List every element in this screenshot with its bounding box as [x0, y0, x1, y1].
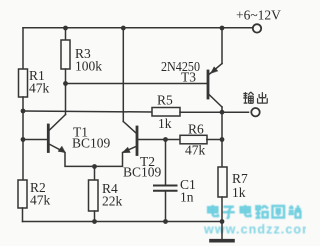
label R1 value	[29, 8, 281, 209]
node rail-ground	[220, 219, 225, 224]
wire R3 bottom down to T1 collector	[65, 69, 67, 115]
svg-text:R5: R5	[157, 93, 173, 108]
ground	[211, 222, 233, 241]
svg-text:R7: R7	[232, 171, 248, 186]
watermark 电子电路图网 line 1	[208, 205, 301, 218]
wire R5 right to output node	[180, 111, 222, 113]
node R6/R7	[220, 137, 225, 142]
svg-text:R6: R6	[188, 122, 204, 137]
resistor R2	[18, 180, 27, 208]
node R4-rail	[92, 219, 97, 224]
resistor R5	[152, 108, 180, 117]
wire top supply rail	[23, 27, 253, 29]
transistor T2	[95, 122, 166, 167]
wire left vertical from rail to R1	[22, 28, 24, 69]
node R1/R2 divider T1 base tap	[21, 137, 26, 142]
capacitor C1	[154, 186, 177, 191]
wire bias line from divider node to R5 left	[23, 111, 152, 112]
resistor R7	[218, 167, 227, 197]
wire T1/T2 common emitter to R4	[94, 167, 96, 181]
svg-text:47k: 47k	[30, 193, 51, 208]
transistor T3	[208, 64, 222, 108]
node T2 base/R6/C1	[163, 137, 168, 142]
svg-text:T3: T3	[181, 70, 196, 85]
wire R6 left stub	[166, 139, 181, 141]
svg-text:1k: 1k	[232, 185, 246, 200]
wire node A to T3 base	[66, 83, 207, 85]
wire T3 emitter to supply rail	[221, 28, 223, 64]
node rail-T2 collector	[121, 26, 126, 31]
svg-text:100k: 100k	[75, 59, 102, 74]
resistor R3	[61, 40, 70, 69]
node output	[220, 110, 225, 115]
svg-text:1k: 1k	[158, 116, 172, 131]
svg-text:47k: 47k	[29, 81, 50, 96]
wire T3 collector to output node	[221, 107, 223, 112]
resistor R4	[89, 180, 99, 211]
resistor R6	[180, 135, 207, 144]
wire R2 bottom to bottom-left corner	[22, 208, 24, 222]
svg-text:47k: 47k	[185, 143, 206, 158]
node rail-R3	[63, 26, 68, 31]
label output 输出 (drawn glyphs)	[243, 92, 267, 103]
node A R3-T3 base	[63, 81, 68, 86]
wire T2 collector to supply rail	[122, 28, 124, 122]
node rail-T3 emitter	[220, 26, 225, 31]
wire T2 base/R6 node down to C1	[165, 140, 167, 186]
wire R6 right stub	[207, 139, 222, 141]
terminal +6~12V circle	[253, 24, 261, 32]
wire R7 bottom to rail	[221, 197, 223, 222]
svg-text:BC109: BC109	[72, 136, 111, 151]
wire T1 base line	[23, 139, 48, 141]
node R1/R2 divider upper tap	[21, 109, 26, 114]
wire bottom ground rail	[23, 221, 223, 223]
svg-text:1n: 1n	[180, 190, 194, 205]
svg-text:22k: 22k	[102, 194, 123, 209]
node common emitters	[92, 164, 97, 169]
wire output node to terminal	[222, 111, 249, 113]
svg-text:BC109: BC109	[123, 165, 162, 180]
resistor R1	[19, 69, 28, 97]
junction nodes	[21, 26, 225, 224]
wire C1 bottom to rail	[165, 192, 167, 222]
svg-text:www.cndzz.com: www.cndzz.com	[203, 223, 306, 237]
wire output node down through R6 node to R7	[221, 112, 223, 167]
terminal output circle	[251, 108, 259, 116]
wire R3 stub from rail	[65, 28, 67, 40]
node C1-rail	[163, 219, 168, 224]
transistor T1	[48, 115, 94, 167]
wire R4 bottom to rail	[94, 211, 96, 222]
svg-text:+6~12V: +6~12V	[236, 8, 281, 23]
wire R1 bottom to R2 top (divider node)	[22, 97, 24, 180]
